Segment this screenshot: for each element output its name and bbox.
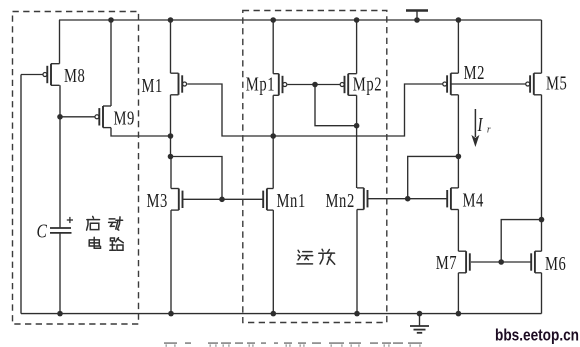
wire M4 source to M7 drain [457,209,459,251]
wire M7 source to ground rail [457,273,459,314]
wire opamp output to M2 M5 gates [273,84,443,136]
startup-circuit dashed box [13,12,139,325]
wire M2 drain to M4 drain [457,95,459,188]
wire M8 source to rail [59,20,61,64]
node M2 drain [456,154,462,160]
transistor Mp2 (PMOS) [340,74,356,96]
wire M6 source to ground rail right end [541,273,543,314]
wire Mp1 source to rail [272,20,274,74]
node Mp gate [312,82,318,88]
transistor M7 (NMOS) [458,251,469,273]
transistor Mn2 (NMOS) [357,188,368,210]
svg-text:M9: M9 [114,106,135,129]
wire Mp2 diode connection [315,85,357,126]
node rail-VDD [414,17,420,23]
transistor M3 (NMOS) [171,189,183,211]
wire Mn2 source to ground rail [356,209,358,313]
transistor M9 (PMOS) [95,106,111,128]
node M6 gate [498,259,504,265]
wire M9 drain to M1 drain node [111,128,171,136]
wire Mp2 source to rail [356,20,358,74]
wire top VDD rail [59,19,542,21]
label fang (opamp text) [319,249,335,264]
svg-text:M4: M4 [463,188,484,211]
svg-text:Mp1: Mp1 [246,72,275,95]
transistor M8 (PMOS) [43,64,60,86]
node M4 gate [405,196,411,202]
wire M1 source to rail [170,20,172,73]
transistor Mp1 (PMOS) [273,74,287,96]
node rail-M2 [456,17,462,23]
wire M6 diode loop [501,220,541,262]
label yun (opamp text) [297,250,313,264]
caption fragment (clipped text) [164,342,177,344]
transistor M4 (NMOS) [447,188,458,210]
wire M8 drain / C / node A column [59,85,61,228]
transistor M2 (PMOS) [443,73,459,95]
wire M2 to M5 gate segment [451,83,526,85]
wire M3/Mn1 gate net [183,198,263,200]
node gnd-sym [417,311,423,317]
svg-text:bbs.eetop.cn: bbs.eetop.cn [495,326,579,345]
node M5 drain [539,217,545,223]
svg-text:M8: M8 [64,64,85,87]
node M1 drain [168,133,174,139]
node opamp output [270,133,276,139]
wire M8 gate lead [21,74,43,76]
svg-text:Mn1: Mn1 [277,189,306,212]
wire M1 drain to M3 gate [171,157,223,200]
node rail-M9 [108,17,114,23]
node M3 gate [219,197,225,203]
wire Mp1/Mp2 gate net [288,84,341,86]
node gnd-Mn2 [354,311,360,317]
node Mp2 drain [354,123,360,129]
capacitor C [50,228,72,233]
node rail-M1 [168,17,174,23]
capacitor C plus sign [67,217,73,223]
svg-text:M3: M3 [147,189,168,212]
wire left ground drop [20,75,22,314]
wire M9 source to rail [110,20,112,106]
wire M4 diode loop [408,156,459,198]
svg-text:Mn2: Mn2 [326,189,355,212]
svg-text:M6: M6 [545,252,566,275]
wire M1 drain column [170,95,172,157]
wire M2 source to rail [457,20,459,73]
wire M9 gate lead [60,116,95,118]
node gnd-M3 [168,311,174,317]
node rail-Mp1 [270,17,276,23]
opamp dashed box [243,11,387,323]
svg-text:M1: M1 [142,74,163,97]
ground [410,314,429,333]
transistor M6 (NMOS) [531,251,541,273]
label dong (startup text) [109,217,123,230]
wire M1 gate to opamp output node [187,84,273,136]
wire M3 source to ground rail [170,210,172,314]
node A M8 drain / M9 gate [57,114,63,120]
transistor M1 (PMOS) [171,73,187,95]
wire M5 drain to M6 drain [541,95,543,251]
wire M7/M6 gate net [471,261,531,263]
svg-text:I: I [477,113,484,136]
current arrow Ir [471,109,479,147]
node M3 drain [168,154,174,160]
wire M3 drain [170,157,172,189]
wire Mn2/M4 gate net [368,198,447,200]
svg-text:r: r [487,124,491,136]
svg-text:M7: M7 [436,251,457,274]
svg-text:M2: M2 [464,61,485,84]
label dian (startup text) [89,237,100,248]
transistor Mn1 (NMOS) [263,189,273,211]
node gnd-Mn1 [271,311,277,317]
svg-text:Mp2: Mp2 [353,72,382,95]
wire M5 source to rail [541,20,543,73]
wire Mp2 drain to Mn2 drain [356,95,358,188]
node rail-Mp2 [354,17,360,23]
wire Mp1 drain to Mn1 drain [272,95,274,188]
svg-text:M5: M5 [546,71,567,94]
label qi (startup text) [87,216,100,230]
wire bottom ground rail [21,313,542,315]
label lu (startup text) [110,238,124,251]
transistor M5 (PMOS) [526,73,542,95]
power symbol VDD [406,11,428,21]
node gnd-M7 [456,311,462,317]
node gnd-C [57,311,63,317]
wire Mn1 source to ground rail [272,210,274,314]
svg-text:C: C [37,220,48,242]
